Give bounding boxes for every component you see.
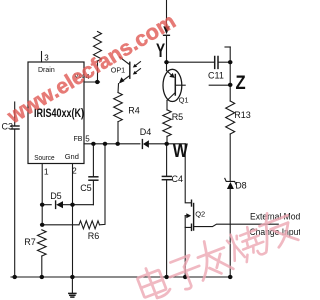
- wire Q2 source drop: [184, 227, 186, 277]
- wire top resistor lead: [97, 61, 99, 82]
- node Q2-bottom: [183, 275, 188, 279]
- char shao: [230, 235, 234, 245]
- diode (unlabeled, Y line): [163, 26, 170, 34]
- svg-text:Q2: Q2: [195, 210, 205, 219]
- svg-text:D4: D4: [140, 127, 152, 137]
- transistor Q2 drain bar: [191, 200, 193, 206]
- watermark chinese row: [135, 206, 298, 300]
- resistor R4: [114, 93, 123, 122]
- wire Y to C11: [167, 61, 215, 63]
- node D8-bottom: [228, 275, 233, 279]
- transistor Q1 emitter: [167, 71, 173, 77]
- node C4-bottom: [164, 275, 169, 279]
- svg-text:C4: C4: [172, 174, 184, 184]
- wire ground net bottom: [11, 276, 230, 278]
- node Z: [228, 83, 233, 87]
- wire C11 to Z: [219, 61, 231, 63]
- wire R6 net: [42, 224, 79, 226]
- zener D8: [225, 178, 236, 184]
- transistor Q1: [163, 69, 182, 101]
- svg-text:FB: FB: [74, 136, 83, 143]
- svg-text:1: 1: [44, 166, 49, 176]
- capacitor C4 lead: [166, 144, 168, 176]
- optocoupler OP1 light arrows: [135, 62, 141, 67]
- wire R13 to D8: [229, 134, 231, 181]
- char dian: [137, 270, 166, 298]
- capacitor C4: [162, 176, 171, 179]
- transistor Q2 substrate arrow: [185, 215, 187, 217]
- wire pin 3 lead: [41, 52, 43, 63]
- wire D5 net: [42, 204, 51, 206]
- capacitor C5: [89, 177, 98, 180]
- svg-text:C11: C11: [208, 71, 224, 81]
- diode D4: [141, 140, 143, 149]
- svg-text:D5: D5: [50, 191, 62, 201]
- optocoupler OP1 emitter: [122, 76, 130, 82]
- resistor R13: [226, 101, 235, 134]
- svg-text:Gnd: Gnd: [65, 152, 79, 161]
- transistor Q1 base bar: [174, 75, 176, 96]
- wire Y line: [166, 0, 168, 27]
- wire R6 riser: [100, 144, 106, 225]
- svg-text:W: W: [173, 139, 188, 161]
- node W: [164, 142, 169, 146]
- transistor Q2 gate bar: [193, 204, 195, 231]
- wire pin 2: [72, 164, 74, 277]
- svg-text:R6: R6: [88, 231, 100, 241]
- node FB-C5: [91, 142, 96, 146]
- transistor Q2 drain drop: [185, 144, 191, 203]
- node C3-bottom: [12, 275, 17, 279]
- wire pin 1: [41, 164, 43, 225]
- node pin1-D5: [40, 203, 45, 207]
- transistor Q2 source bar: [191, 224, 193, 230]
- wire FB pin 5: [84, 143, 140, 145]
- char zi: [170, 255, 192, 271]
- transistor Q1 base lead: [175, 84, 185, 86]
- svg-text:Source: Source: [34, 155, 55, 162]
- wire right column: [229, 47, 231, 101]
- resistor R5: [163, 110, 171, 137]
- wire Z terminal tick: [225, 46, 230, 48]
- ground: [69, 293, 76, 297]
- svg-text:Drain: Drain: [38, 67, 55, 74]
- node dots: [12, 60, 232, 279]
- svg-text:Q1: Q1: [179, 95, 189, 104]
- resistor R6: [79, 221, 100, 229]
- optocoupler OP1 base bar: [129, 62, 131, 78]
- capacitor C3: [11, 126, 19, 129]
- wire Q2 gate input: [194, 224, 279, 226]
- svg-text:R5: R5: [172, 112, 184, 122]
- node R7-bottom: [40, 275, 45, 279]
- wire R7 bottom lead: [41, 256, 43, 277]
- node Y: [164, 60, 169, 64]
- node C11-right: [228, 60, 233, 64]
- wire D8 bottom lead: [229, 189, 231, 277]
- wire R5 bottom lead: [166, 136, 168, 143]
- svg-text:R7: R7: [24, 237, 36, 247]
- node pin2-D5: [70, 203, 75, 207]
- char fa: [198, 248, 224, 258]
- capacitor C5 lead: [92, 144, 94, 176]
- node Vcc: [95, 80, 100, 84]
- svg-text:R4: R4: [128, 106, 140, 116]
- svg-text:C5: C5: [80, 183, 92, 193]
- resistor (unlabeled, Vcc feed): [94, 32, 102, 62]
- IC U1 IRIS40xx(K) body: [28, 62, 84, 164]
- wire C3 bottom lead: [14, 130, 16, 277]
- node FB-R4: [115, 142, 120, 146]
- wire ground drop: [71, 277, 73, 293]
- node FB-R6: [103, 142, 108, 146]
- svg-text:5: 5: [85, 134, 90, 143]
- svg-text:2: 2: [72, 165, 77, 175]
- svg-text:C3: C3: [2, 122, 14, 132]
- svg-text:Z: Z: [236, 72, 246, 94]
- wire FB after D4: [149, 143, 185, 145]
- transistor Q1 collector: [167, 93, 175, 101]
- svg-text:3: 3: [44, 54, 49, 63]
- wire pin 4 Vcc: [84, 81, 100, 83]
- diode D5: [56, 201, 63, 208]
- wire C3 top lead: [14, 102, 16, 125]
- svg-text:R13: R13: [234, 110, 251, 120]
- node R7-top: [40, 223, 45, 227]
- wire R4 bottom lead: [117, 122, 119, 144]
- optocoupler OP1 collector: [120, 57, 130, 65]
- node gnd: [70, 275, 75, 279]
- wire Z net segment: [209, 84, 230, 86]
- wire OP1 emitter to R4: [117, 84, 120, 93]
- svg-text:D8: D8: [235, 181, 247, 191]
- char you: [260, 215, 288, 226]
- transistor Q2 source: [185, 216, 191, 228]
- resistor R7: [38, 230, 47, 256]
- capacitor C11: [215, 57, 218, 69]
